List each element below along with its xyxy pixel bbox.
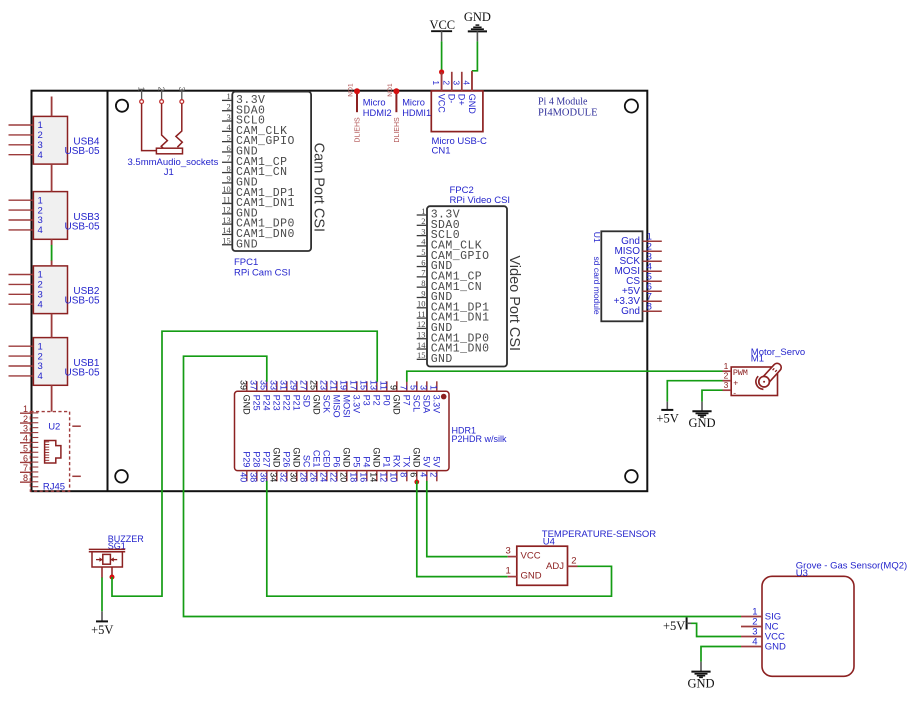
- svg-text:31: 31: [279, 380, 289, 390]
- svg-text:9: 9: [421, 288, 425, 298]
- svg-text:MOSI: MOSI: [342, 395, 352, 418]
- svg-text:GND: GND: [392, 395, 402, 416]
- svg-text:GND: GND: [272, 447, 282, 468]
- svg-text:P6: P6: [332, 456, 342, 467]
- svg-text:ADJ: ADJ: [546, 561, 564, 572]
- svg-text:3: 3: [419, 385, 429, 390]
- svg-text:Grove - Gas Sensor(MQ2): Grove - Gas Sensor(MQ2): [796, 561, 907, 572]
- svg-text:GND: GND: [464, 10, 491, 24]
- svg-text:Cam Port CSI: Cam Port CSI: [310, 143, 326, 232]
- svg-text:18: 18: [349, 472, 359, 482]
- svg-text:SD: SD: [302, 395, 312, 408]
- svg-text:3: 3: [421, 226, 425, 236]
- svg-text:USB-05: USB-05: [64, 296, 99, 307]
- svg-text:8: 8: [647, 302, 652, 313]
- svg-text:5V: 5V: [422, 456, 432, 467]
- svg-text:4: 4: [419, 472, 429, 477]
- svg-text:4: 4: [38, 225, 43, 236]
- svg-text:5: 5: [409, 385, 419, 390]
- svg-text:4: 4: [752, 637, 757, 648]
- svg-text:39: 39: [239, 380, 249, 390]
- svg-text:P22: P22: [282, 395, 292, 411]
- svg-text:24: 24: [319, 472, 329, 482]
- svg-text:USB-05: USB-05: [64, 221, 99, 232]
- svg-text:16: 16: [359, 472, 369, 482]
- svg-text:SC: SC: [302, 455, 312, 468]
- svg-text:M1: M1: [751, 354, 764, 365]
- svg-text:33: 33: [269, 380, 279, 390]
- svg-text:+: +: [733, 377, 738, 387]
- svg-text:sd card module: sd card module: [592, 257, 602, 315]
- svg-text:4: 4: [38, 150, 43, 161]
- svg-text:Micro: Micro: [402, 98, 425, 108]
- svg-text:GND: GND: [412, 447, 422, 468]
- svg-text:23: 23: [319, 380, 329, 390]
- svg-text:11: 11: [223, 194, 231, 204]
- svg-text:CE0: CE0: [322, 450, 332, 468]
- svg-text:12: 12: [417, 319, 426, 329]
- svg-text:GND: GND: [467, 94, 477, 115]
- svg-text:8: 8: [227, 163, 231, 173]
- svg-text:NO1: NO1: [348, 83, 355, 97]
- svg-text:1: 1: [506, 566, 511, 577]
- svg-text:6: 6: [227, 143, 231, 153]
- svg-text:7: 7: [421, 268, 425, 278]
- svg-text:D-: D-: [447, 94, 457, 104]
- svg-text:1: 1: [23, 404, 28, 414]
- svg-text:NO1: NO1: [387, 83, 394, 97]
- svg-text:7: 7: [399, 385, 409, 390]
- svg-text:3: 3: [451, 80, 461, 85]
- svg-text:2: 2: [429, 472, 439, 477]
- svg-text:13: 13: [417, 330, 426, 340]
- svg-text:22: 22: [329, 472, 339, 482]
- svg-text:RJ45: RJ45: [43, 481, 65, 492]
- svg-text:GND: GND: [431, 353, 453, 366]
- svg-text:TEMPERATURE-SENSOR: TEMPERATURE-SENSOR: [542, 529, 657, 540]
- svg-text:HDMI1: HDMI1: [402, 108, 431, 118]
- svg-text:3: 3: [506, 546, 511, 557]
- svg-text:RPi Cam CSI: RPi Cam CSI: [234, 268, 290, 279]
- svg-text:RPi Video CSI: RPi Video CSI: [450, 195, 511, 206]
- svg-text:26: 26: [309, 472, 319, 482]
- svg-text:29: 29: [289, 380, 299, 390]
- svg-text:6: 6: [23, 453, 28, 463]
- svg-text:27: 27: [299, 380, 309, 390]
- svg-text:5: 5: [23, 443, 28, 453]
- svg-text:P28: P28: [252, 451, 262, 467]
- svg-text:Micro: Micro: [363, 98, 386, 108]
- svg-text:10: 10: [417, 299, 426, 309]
- svg-text:5: 5: [421, 247, 425, 257]
- svg-text:4: 4: [38, 299, 43, 310]
- svg-text:PI4MODULE: PI4MODULE: [538, 108, 598, 119]
- svg-text:Gnd: Gnd: [621, 306, 640, 317]
- svg-text:P3: P3: [362, 395, 372, 406]
- svg-text:2: 2: [157, 87, 167, 92]
- svg-text:P26: P26: [282, 451, 292, 467]
- svg-text:8: 8: [399, 472, 409, 477]
- svg-text:3: 3: [177, 87, 187, 92]
- svg-text:32: 32: [279, 472, 289, 482]
- svg-text:40: 40: [239, 472, 249, 482]
- svg-text:D+: D+: [457, 94, 467, 106]
- svg-text:12: 12: [222, 205, 231, 215]
- svg-text:8: 8: [421, 278, 425, 288]
- svg-text:2: 2: [421, 216, 425, 226]
- svg-text:38: 38: [249, 472, 259, 482]
- svg-text:7: 7: [23, 463, 28, 473]
- svg-text:+5V: +5V: [656, 412, 678, 426]
- svg-text:P1: P1: [382, 456, 392, 467]
- svg-text:SCK: SCK: [322, 395, 332, 414]
- svg-text:8: 8: [23, 473, 28, 483]
- svg-text:+5V: +5V: [91, 623, 113, 637]
- svg-text:GND: GND: [688, 416, 715, 430]
- svg-text:5V: 5V: [432, 456, 442, 467]
- svg-text:P2HDR w/silk: P2HDR w/silk: [452, 434, 508, 444]
- svg-text:2: 2: [441, 80, 451, 85]
- svg-text:-: -: [733, 387, 736, 397]
- svg-text:Pi 4 Module: Pi 4 Module: [538, 96, 588, 107]
- svg-text:U3: U3: [796, 568, 808, 579]
- svg-text:GND: GND: [521, 571, 542, 582]
- svg-text:12: 12: [379, 472, 389, 482]
- svg-text:GND: GND: [342, 447, 352, 468]
- svg-text:28: 28: [299, 472, 309, 482]
- svg-text:30: 30: [289, 472, 299, 482]
- svg-text:1: 1: [137, 87, 147, 92]
- svg-text:4: 4: [227, 122, 232, 132]
- svg-text:GND: GND: [372, 447, 382, 468]
- svg-text:GND: GND: [765, 642, 786, 653]
- svg-text:+5V: +5V: [663, 619, 685, 633]
- svg-text:1: 1: [429, 385, 439, 390]
- svg-text:3: 3: [227, 112, 231, 122]
- svg-text:1: 1: [421, 206, 425, 216]
- svg-text:RX: RX: [392, 455, 402, 468]
- svg-text:P0: P0: [382, 395, 392, 406]
- svg-text:2: 2: [571, 556, 576, 567]
- svg-text:U2: U2: [48, 422, 60, 433]
- svg-text:DLIEHS: DLIEHS: [394, 117, 401, 143]
- svg-text:7: 7: [227, 153, 231, 163]
- svg-text:6: 6: [409, 472, 419, 477]
- svg-text:14: 14: [369, 472, 379, 482]
- svg-text:SDA: SDA: [422, 395, 432, 414]
- svg-text:14: 14: [222, 225, 231, 235]
- svg-text:U1: U1: [592, 232, 602, 243]
- svg-text:GND: GND: [687, 676, 714, 690]
- svg-text:36: 36: [259, 472, 269, 482]
- svg-text:P27: P27: [262, 451, 272, 467]
- svg-text:19: 19: [339, 380, 349, 390]
- svg-text:15: 15: [222, 236, 231, 246]
- svg-text:GND: GND: [312, 395, 322, 416]
- svg-text:3: 3: [23, 424, 28, 434]
- svg-text:P4: P4: [362, 456, 372, 467]
- svg-text:J1: J1: [164, 167, 174, 178]
- svg-text:10: 10: [389, 472, 399, 482]
- svg-text:3: 3: [724, 380, 729, 390]
- svg-text:P25: P25: [252, 395, 262, 411]
- svg-text:5: 5: [227, 132, 231, 142]
- svg-text:P23: P23: [272, 395, 282, 411]
- svg-text:14: 14: [417, 340, 426, 350]
- svg-text:25: 25: [309, 380, 319, 390]
- svg-text:6: 6: [421, 257, 425, 267]
- svg-text:1: 1: [724, 361, 729, 371]
- svg-text:2: 2: [23, 414, 28, 424]
- svg-text:Video Port CSI: Video Port CSI: [506, 255, 522, 351]
- svg-text:P29: P29: [242, 451, 252, 467]
- svg-text:4: 4: [462, 80, 472, 85]
- svg-text:GND: GND: [292, 447, 302, 468]
- svg-text:USB-05: USB-05: [64, 367, 99, 378]
- svg-text:37: 37: [249, 380, 259, 390]
- svg-text:2: 2: [724, 370, 729, 380]
- svg-text:USB-05: USB-05: [64, 146, 99, 157]
- svg-text:MISO: MISO: [332, 395, 342, 418]
- svg-text:P24: P24: [262, 395, 272, 411]
- svg-text:FPC1: FPC1: [234, 257, 258, 268]
- svg-text:11: 11: [379, 381, 389, 390]
- svg-text:9: 9: [227, 174, 231, 184]
- svg-text:1: 1: [227, 91, 231, 101]
- svg-text:9: 9: [389, 385, 399, 390]
- svg-text:13: 13: [222, 215, 231, 225]
- svg-text:GND: GND: [236, 238, 258, 251]
- svg-text:HDMI2: HDMI2: [363, 108, 392, 118]
- svg-text:17: 17: [349, 380, 359, 390]
- svg-text:VCC: VCC: [429, 18, 455, 32]
- svg-text:10: 10: [222, 184, 231, 194]
- svg-text:3.3V: 3.3V: [352, 395, 362, 414]
- svg-text:TX: TX: [402, 456, 412, 468]
- svg-text:CN1: CN1: [432, 146, 451, 157]
- svg-text:1: 1: [431, 80, 441, 85]
- svg-text:11: 11: [417, 309, 425, 319]
- svg-text:SCL: SCL: [412, 395, 422, 413]
- svg-text:15: 15: [417, 350, 426, 360]
- svg-text:P2: P2: [372, 395, 382, 406]
- svg-text:21: 21: [329, 380, 339, 390]
- svg-text:U4: U4: [543, 536, 555, 547]
- svg-text:34: 34: [269, 472, 279, 482]
- svg-text:P5: P5: [352, 456, 362, 467]
- svg-text:2: 2: [227, 102, 231, 112]
- svg-text:GND: GND: [242, 395, 252, 416]
- svg-text:VCC: VCC: [436, 94, 446, 114]
- svg-text:P21: P21: [292, 395, 302, 411]
- svg-text:4: 4: [38, 371, 43, 382]
- svg-text:3.3V: 3.3V: [432, 395, 442, 414]
- svg-text:VCC: VCC: [521, 551, 541, 562]
- svg-text:15: 15: [359, 380, 369, 390]
- svg-text:4: 4: [23, 434, 28, 444]
- svg-text:P7: P7: [402, 395, 412, 406]
- svg-text:DLIEHS: DLIEHS: [354, 117, 361, 143]
- svg-text:20: 20: [339, 472, 349, 482]
- svg-text:CE1: CE1: [312, 450, 322, 468]
